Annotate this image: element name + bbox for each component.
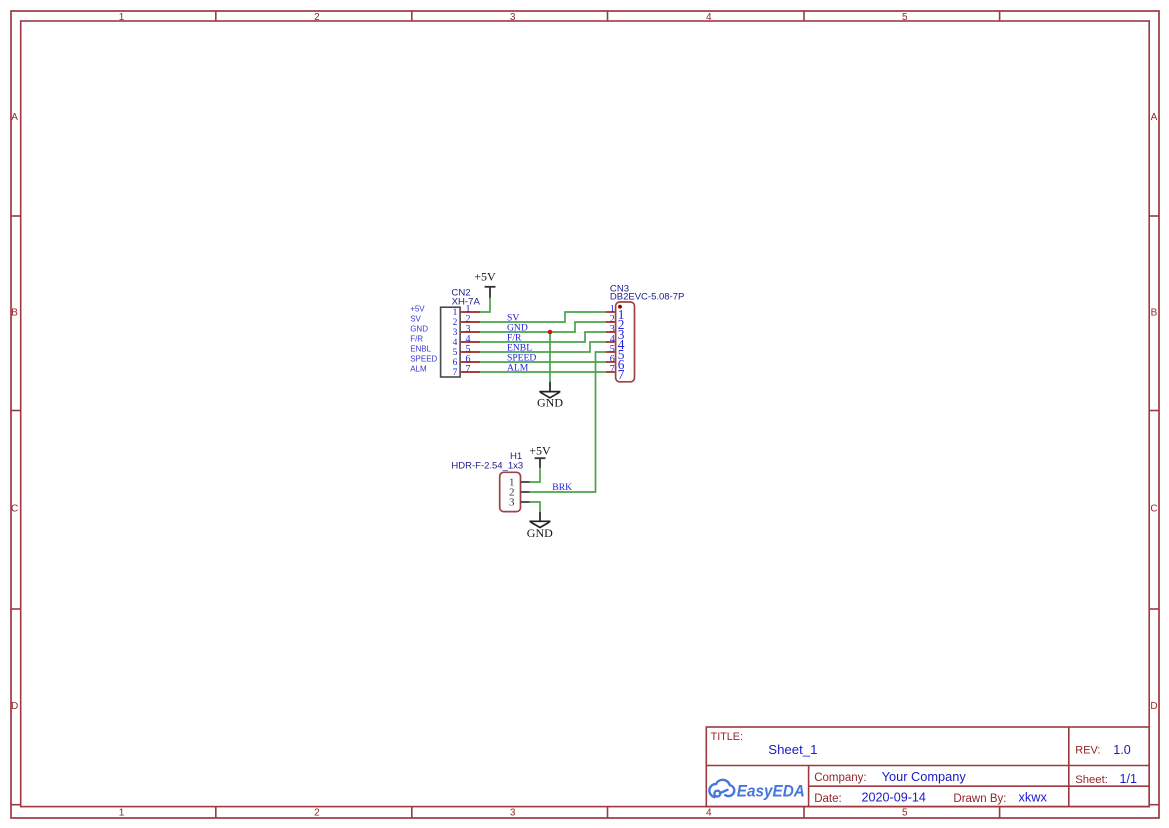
svg-text:ALM: ALM <box>410 365 427 374</box>
svg-text:ALM: ALM <box>507 362 529 373</box>
svg-text:DB2EVC-5.08-7P: DB2EVC-5.08-7P <box>610 292 684 303</box>
svg-text:B: B <box>11 307 18 318</box>
title block row divider 2 <box>809 785 1150 787</box>
wire F/R (CN2 pin4 to CN3 pin3) <box>480 332 606 342</box>
svg-text:C: C <box>11 504 18 515</box>
wire ALM (CN2 pin7 to CN3 pin7) <box>480 371 606 373</box>
wire H1 pin1 to +5V <box>530 468 541 482</box>
row letters left <box>11 112 18 712</box>
svg-text:SPEED: SPEED <box>410 355 437 364</box>
svg-text:3: 3 <box>510 808 516 819</box>
svg-text:XH-7A: XH-7A <box>452 297 481 308</box>
column numbers top <box>119 12 908 23</box>
connector CN2 body <box>441 307 461 377</box>
svg-text:C: C <box>1150 504 1157 515</box>
title block column divider (rev/sheet cell) <box>1068 727 1070 807</box>
title block outline <box>706 727 1149 807</box>
connector H1 body <box>500 472 521 511</box>
CN2 pin numbers <box>466 304 471 375</box>
GND symbol at H1 pin3 <box>529 512 550 528</box>
junction on GND net <box>548 330 553 335</box>
svg-text:ENBL: ENBL <box>410 345 431 354</box>
svg-text:2: 2 <box>314 808 320 819</box>
svg-text:HDR-F-2.54_1x3: HDR-F-2.54_1x3 <box>451 461 523 472</box>
CN3 pin stubs <box>606 312 616 372</box>
row tick marks right <box>1149 216 1159 805</box>
wire ENBL (CN2 pin5 to CN3 pin4) <box>480 342 606 352</box>
svg-text:Your Company: Your Company <box>882 769 967 784</box>
GND symbol below junction <box>539 382 560 398</box>
svg-text:4: 4 <box>706 808 712 819</box>
svg-text:D: D <box>1150 701 1157 712</box>
+5V power symbol at CN2 <box>485 287 496 298</box>
svg-text:1: 1 <box>453 308 458 318</box>
svg-text:xkwx: xkwx <box>1019 790 1048 805</box>
row tick marks left <box>11 216 21 805</box>
wire GND (CN2 pin3 to CN3 pin2) <box>480 322 606 332</box>
CN3 pin numbers <box>610 304 615 375</box>
svg-text:4: 4 <box>453 338 458 348</box>
svg-text:A: A <box>11 112 18 123</box>
svg-text:+5V: +5V <box>410 305 425 314</box>
svg-text:3: 3 <box>453 328 458 338</box>
CN2 left pin name labels <box>410 305 437 374</box>
svg-text:Company:: Company: <box>814 772 866 784</box>
CN3 pin names inside <box>618 307 625 382</box>
svg-text:+5V: +5V <box>474 270 496 284</box>
column tick marks top <box>216 11 1000 21</box>
svg-text:5: 5 <box>902 12 908 23</box>
svg-text:7: 7 <box>618 367 625 382</box>
svg-text:SV: SV <box>410 315 421 324</box>
svg-text:2: 2 <box>314 12 320 23</box>
CN2 pin names inside <box>453 308 458 378</box>
svg-text:B: B <box>1151 307 1158 318</box>
svg-text:6: 6 <box>453 358 458 368</box>
svg-text:GND: GND <box>537 396 563 410</box>
title block row divider 1 <box>706 765 1149 767</box>
connector CN3 body <box>616 302 635 382</box>
svg-text:1: 1 <box>119 12 125 23</box>
svg-text:2020-09-14: 2020-09-14 <box>862 791 926 805</box>
svg-text:+5V: +5V <box>529 443 551 457</box>
wire H1 pin3 to ground <box>530 502 541 512</box>
svg-text:1/1: 1/1 <box>1120 772 1138 786</box>
svg-text:1: 1 <box>119 808 125 819</box>
CN3 pin1 mark <box>618 305 622 309</box>
wire +5V to CN2 pin1 <box>480 297 490 312</box>
column numbers bottom <box>119 808 908 819</box>
H1 pin names inside <box>509 476 515 508</box>
H1 pin stubs <box>521 482 530 502</box>
row letters right <box>1150 112 1157 712</box>
svg-text:7: 7 <box>453 368 458 378</box>
CN2 pin stubs <box>460 312 480 372</box>
wire SPEED (CN2 pin6 to CN3 pin6) <box>480 361 606 363</box>
svg-text:7: 7 <box>610 364 615 375</box>
svg-text:GND: GND <box>410 325 428 334</box>
svg-text:A: A <box>1151 112 1158 123</box>
svg-text:Sheet_1: Sheet_1 <box>768 742 817 757</box>
wire BRK (CN3 pin5 to H1 pin2) <box>530 352 607 492</box>
column tick marks bottom <box>216 807 1000 818</box>
svg-text:F/R: F/R <box>410 335 423 344</box>
EasyEDA logo cloud <box>709 780 734 797</box>
svg-text:BRK: BRK <box>552 482 572 493</box>
svg-text:5: 5 <box>453 348 458 358</box>
title block column divider (logo cell) <box>808 766 810 807</box>
svg-text:Date:: Date: <box>814 793 842 805</box>
svg-text:4: 4 <box>706 12 712 23</box>
svg-text:TITLE:: TITLE: <box>711 731 743 743</box>
svg-text:1.0: 1.0 <box>1113 743 1131 757</box>
svg-text:3: 3 <box>510 12 516 23</box>
svg-text:3: 3 <box>509 496 515 508</box>
svg-text:GND: GND <box>527 526 553 540</box>
svg-text:7: 7 <box>466 364 471 375</box>
svg-text:Sheet:: Sheet: <box>1075 774 1108 786</box>
svg-text:EasyEDA: EasyEDA <box>737 782 805 801</box>
svg-text:Drawn By:: Drawn By: <box>953 793 1006 805</box>
+5V power symbol at H1 <box>535 458 546 468</box>
wire GND net drop to ground <box>549 332 551 382</box>
svg-text:2: 2 <box>453 318 458 328</box>
svg-text:REV:: REV: <box>1075 745 1100 757</box>
wire SV (CN2 pin2 to CN3 pin1) <box>480 312 606 322</box>
svg-text:5: 5 <box>902 808 908 819</box>
svg-text:D: D <box>11 701 18 712</box>
